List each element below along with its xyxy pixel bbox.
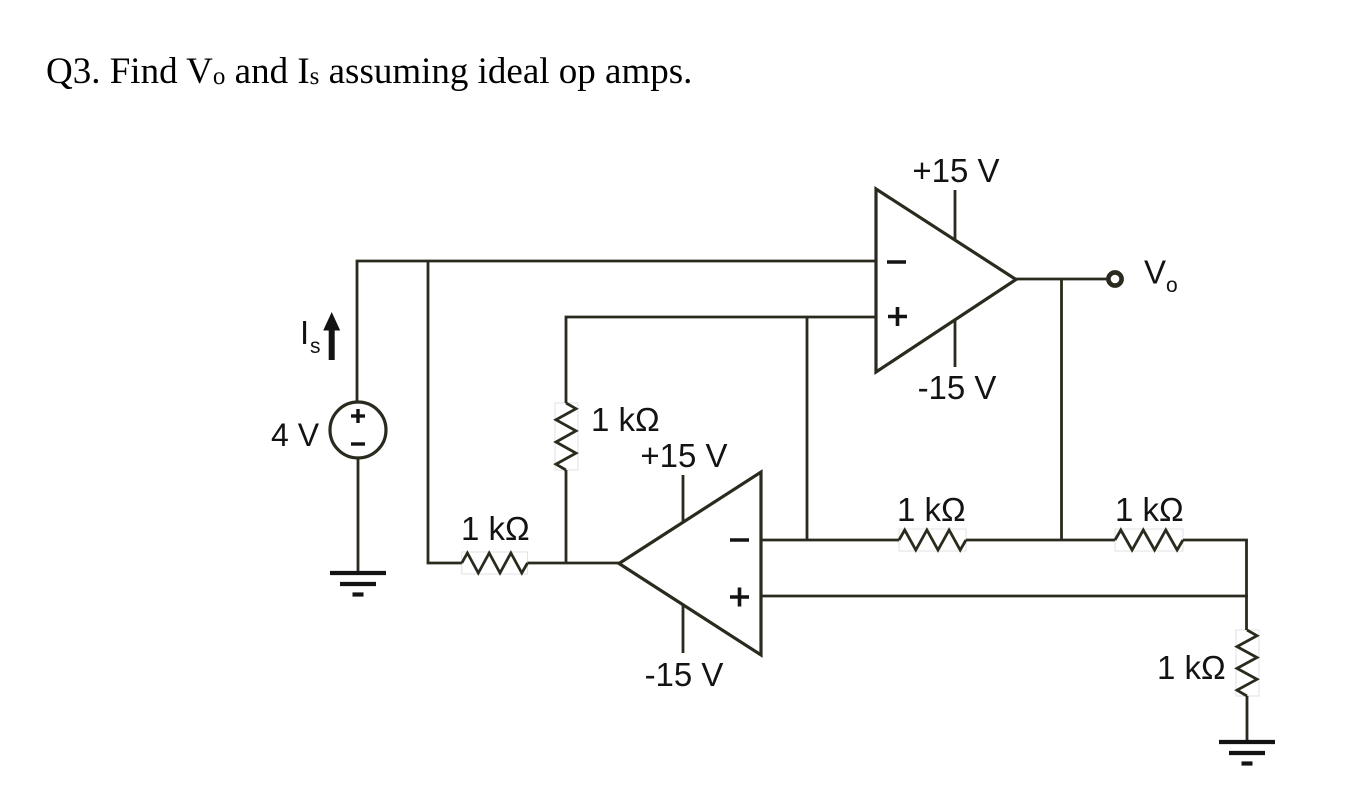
svg-text:s: s xyxy=(310,335,321,358)
svg-text:V: V xyxy=(1144,254,1166,291)
svg-text:1 kΩ: 1 kΩ xyxy=(591,401,660,438)
svg-text:-15 V: -15 V xyxy=(645,656,724,693)
svg-text:1 kΩ: 1 kΩ xyxy=(897,491,966,528)
svg-text:4 V: 4 V xyxy=(271,417,320,453)
svg-text:1 kΩ: 1 kΩ xyxy=(1115,491,1184,528)
svg-text:1 kΩ: 1 kΩ xyxy=(1157,649,1226,686)
svg-text:+15 V: +15 V xyxy=(640,437,727,474)
svg-text:-15 V: -15 V xyxy=(918,369,997,406)
svg-text:I: I xyxy=(300,314,309,351)
svg-text:o: o xyxy=(1166,274,1178,297)
svg-text:1 kΩ: 1 kΩ xyxy=(461,510,530,547)
svg-text:+15 V: +15 V xyxy=(912,152,999,189)
